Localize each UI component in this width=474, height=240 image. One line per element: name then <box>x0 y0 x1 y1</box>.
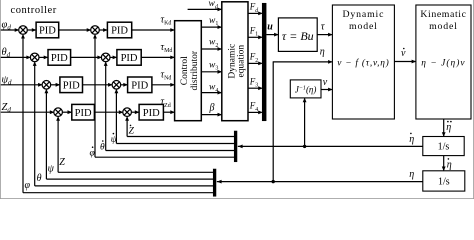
svg-text:η: η <box>447 159 452 170</box>
junction on eta-dot line <box>303 145 306 148</box>
svg-text:PID: PID <box>121 53 138 64</box>
block dynamic model U-DM <box>332 5 394 119</box>
svg-text:J−1(η): J−1(η) <box>295 85 317 95</box>
wire <box>132 29 174 31</box>
wire <box>248 111 262 113</box>
upper demux bar (eta-dot fan-out) <box>234 131 237 162</box>
wire <box>248 12 262 14</box>
svg-text:u: u <box>267 21 273 32</box>
svg-text:τ = Bu: τ = Bu <box>282 29 314 43</box>
wire <box>152 84 174 86</box>
wire <box>94 111 122 113</box>
block J^-1(eta) <box>290 80 321 98</box>
wire nu <box>321 89 332 91</box>
wire <box>248 87 262 89</box>
wire <box>163 111 174 113</box>
wire <box>248 62 262 64</box>
wire <box>201 48 221 50</box>
wire <box>131 111 138 113</box>
wire &#952; feedback vertical <box>34 63 36 186</box>
control distributor block <box>175 21 202 121</box>
wire &#968;-dot feedback vertical <box>115 90 117 143</box>
wire <box>116 143 234 145</box>
block integrator 1/s (second) <box>423 171 465 191</box>
svg-text:equation: equation <box>237 45 247 78</box>
PID controller P7 <box>72 104 95 120</box>
wire <box>201 92 221 94</box>
summing junction S2 <box>91 26 100 35</box>
block kinematic model U-KM <box>416 5 471 119</box>
wire <box>62 111 71 113</box>
wire <box>23 192 213 194</box>
svg-text:1/s: 1/s <box>438 176 450 187</box>
svg-text:v: v <box>401 48 406 59</box>
svg-text:η − J(η)v: η − J(η)v <box>421 57 465 68</box>
wire <box>1 29 19 31</box>
svg-text:β: β <box>209 103 215 114</box>
wire u <box>266 34 278 36</box>
svg-text:1/s: 1/s <box>438 142 450 153</box>
PID controller P4 <box>117 50 141 66</box>
summing junction S7 <box>54 108 63 117</box>
wire <box>51 84 60 86</box>
svg-text:Z: Z <box>59 157 65 168</box>
wire w_d <box>188 8 222 10</box>
svg-text:controller: controller <box>11 5 57 16</box>
wire eta feedback <box>217 181 423 183</box>
svg-text:φ: φ <box>25 180 31 191</box>
wire &#966; feedback vertical <box>22 35 24 192</box>
wire &#968; feedback vertical <box>45 90 47 179</box>
wire <box>58 171 213 173</box>
wire <box>1 111 54 113</box>
wire into J^-1 from eta-dot line <box>304 99 306 147</box>
force summation bus u <box>262 3 266 121</box>
wire <box>99 29 107 31</box>
svg-text:PID: PID <box>75 108 92 119</box>
svg-text:Dynamic: Dynamic <box>342 9 384 20</box>
wire nu-dot <box>394 61 415 63</box>
wire Z-dot feedback vertical <box>126 118 128 137</box>
PID controller P1 <box>36 22 59 38</box>
wire eta to dynamic model <box>273 61 332 63</box>
wire <box>248 36 262 38</box>
svg-text:v − f (τ,v,η): v − f (τ,v,η) <box>337 57 389 68</box>
wire <box>39 56 48 58</box>
wire <box>1 84 42 86</box>
wire <box>95 156 234 158</box>
wire tau <box>317 34 332 36</box>
wire <box>110 56 116 58</box>
svg-text:η: η <box>446 122 451 133</box>
svg-text:θ: θ <box>100 142 105 152</box>
wire <box>71 56 101 58</box>
PID controller P5 <box>60 77 83 93</box>
wire <box>1 56 30 58</box>
block integrator 1/s (first) <box>423 137 464 156</box>
wire eta-ddot <box>443 119 445 136</box>
svg-text:θ: θ <box>37 173 42 184</box>
svg-text:PID: PID <box>51 53 68 64</box>
wire <box>83 84 112 86</box>
wire eta-dot feedback <box>238 145 423 147</box>
svg-text:distributor: distributor <box>190 50 200 90</box>
summing junction S4 <box>101 53 110 62</box>
svg-text:PID: PID <box>39 26 56 37</box>
wire &#952;-dot feedback vertical <box>105 63 107 151</box>
svg-text:η: η <box>409 134 414 145</box>
svg-text:Control: Control <box>180 56 190 85</box>
svg-text:PID: PID <box>111 26 128 37</box>
lower demux bar (eta fan-out) <box>213 169 216 197</box>
svg-text:φ: φ <box>90 149 95 159</box>
PID controller P2 <box>107 22 131 38</box>
svg-text:Z: Z <box>129 127 135 137</box>
svg-text:model: model <box>429 21 458 32</box>
PID controller P6 <box>128 77 152 93</box>
svg-text:PID: PID <box>131 80 148 91</box>
svg-text:PID: PID <box>143 108 160 119</box>
wire <box>35 185 213 187</box>
PID controller P3 <box>48 50 71 66</box>
wire <box>46 178 213 180</box>
summing junction S5 <box>42 81 51 90</box>
svg-text:ψ: ψ <box>48 164 55 175</box>
wire Z feedback vertical <box>57 118 59 173</box>
wire eta vertical <box>272 61 274 181</box>
wire beta <box>201 114 221 116</box>
wire <box>141 56 174 58</box>
svg-text:η: η <box>409 169 414 180</box>
wire <box>27 29 35 31</box>
block tau = Bu <box>278 18 317 52</box>
PID controller P8 <box>139 104 163 120</box>
dynamic equation block <box>222 2 248 121</box>
summing junction S8 <box>123 108 132 117</box>
wire <box>59 29 90 31</box>
wire <box>121 84 127 86</box>
svg-text:η: η <box>320 46 325 57</box>
summing junction S6 <box>112 81 121 90</box>
wire <box>127 136 234 138</box>
wire <box>201 71 221 73</box>
wire <box>443 156 445 171</box>
summing junction S1 <box>19 26 28 35</box>
svg-text:PID: PID <box>63 80 80 91</box>
svg-text:Kinematic: Kinematic <box>420 9 466 20</box>
junction on eta line <box>272 180 275 183</box>
wire &#966;-dot feedback vertical <box>94 35 96 157</box>
wire <box>106 150 234 152</box>
frame <box>0 0 2 199</box>
summing junction S3 <box>30 53 39 62</box>
svg-text:v: v <box>323 77 328 88</box>
svg-text:model: model <box>349 21 378 32</box>
wire <box>201 26 221 28</box>
